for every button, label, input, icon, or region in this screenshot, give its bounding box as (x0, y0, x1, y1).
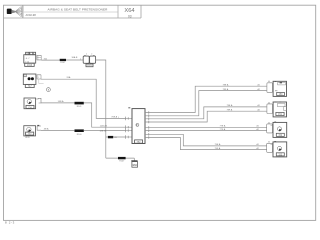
connector bracket of 153 (267, 142, 273, 153)
label plate 153 (276, 153, 284, 157)
splice R107 (60, 59, 66, 64)
svg-text:77E A: 77E A (220, 125, 226, 128)
label plate 756 (26, 105, 34, 109)
svg-text:R140: R140 (77, 134, 83, 136)
svg-text:R147: R147 (119, 161, 125, 163)
splice R147 (118, 157, 126, 163)
connector bracket of 756 (36, 98, 41, 103)
svg-text:76E A: 76E A (111, 115, 117, 118)
svg-text:75E A: 75E A (215, 143, 221, 146)
svg-text:A2: A2 (257, 128, 259, 131)
svg-text:4B A: 4B A (44, 128, 49, 131)
wire 225 to splice R107 (41, 57, 59, 60)
svg-text:A2: A2 (258, 108, 260, 111)
svg-text:2: 2 (91, 54, 92, 56)
component 756 pretensioner buckle (24, 98, 36, 109)
label plate 150 (277, 92, 285, 96)
svg-text:1: 1 (80, 59, 81, 61)
connector bracket of 757 (37, 125, 41, 130)
svg-text:3 A: 3 A (44, 57, 48, 60)
svg-text:A1: A1 (257, 125, 259, 128)
label plate 752 (135, 140, 143, 144)
svg-text:1: 1 (38, 59, 39, 61)
svg-text:77F A: 77F A (220, 128, 226, 131)
wire ECU to 150 pin 1 (145, 83, 267, 112)
svg-text:A1: A1 (258, 83, 260, 86)
svg-text:20A: 20A (67, 76, 71, 79)
component 225 diagnostic socket (24, 52, 36, 63)
splice R110 (108, 136, 118, 139)
splice R140 (75, 129, 84, 136)
connector bracket of 747 (37, 75, 44, 84)
label plate 757 (25, 132, 34, 139)
wire ECU to 150 pin 2 (145, 88, 267, 116)
sheet number 03 (128, 14, 132, 18)
wire ECU to 153 pin 2 (145, 138, 267, 150)
wire R107 to R125 (66, 56, 83, 60)
svg-text:- 6 -7: - 6 -7 (25, 58, 31, 60)
component 150 pretensioner (273, 81, 286, 96)
ground wire to MH (106, 157, 135, 159)
svg-text:1: 1 (86, 54, 87, 56)
wire R125 down to ECU pin 4 / ground node (96, 60, 106, 158)
svg-text:4120: 4120 (25, 137, 30, 139)
svg-text:X64: X64 (124, 8, 135, 14)
header title text (48, 7, 109, 11)
wire ECU to 151 pin 2 (145, 108, 267, 122)
svg-text:14B A: 14B A (58, 100, 64, 103)
svg-text:1: 1 (38, 77, 39, 79)
sheet footer page number (5, 221, 15, 225)
wire junction to ECU pin 4 (106, 136, 126, 138)
wire ECU to 151 pin 1 (145, 104, 267, 119)
wire ECU to 153 pin 1 (145, 134, 267, 146)
svg-text:79F A: 79F A (227, 108, 233, 111)
svg-text:40: 40 (268, 122, 270, 124)
airbag ECU 752 (128, 107, 145, 143)
shunt R125 (80, 54, 96, 64)
svg-text:A1: A1 (257, 143, 259, 146)
svg-text:A2: A2 (257, 147, 259, 150)
wire 747 to ECU pin 1 (41, 76, 126, 119)
connector bracket of 151 (267, 102, 273, 113)
header title block (4, 5, 142, 18)
svg-text:AV02-98: AV02-98 (26, 13, 37, 17)
svg-text:12B 2B: 12B 2B (100, 131, 107, 133)
svg-text:30A B: 30A B (72, 56, 78, 59)
connector bracket of 150 (267, 81, 273, 92)
splice R141 (75, 102, 84, 108)
svg-text:40: 40 (268, 102, 270, 104)
svg-text:12B 2B: 12B 2B (100, 126, 108, 128)
svg-text:A2: A2 (258, 88, 260, 91)
connector bracket of 225 (37, 55, 41, 60)
svg-text:MH: MH (133, 163, 137, 167)
wire 757 to splice R140 (41, 128, 74, 131)
connector bracket of 152 (267, 122, 273, 133)
sheet code X64 (124, 8, 135, 14)
label plate 152 (276, 133, 284, 137)
component 757 pretensioner buckle (24, 126, 36, 136)
svg-text:1016: 1016 (27, 64, 33, 67)
svg-text:78E A: 78E A (223, 83, 229, 86)
component 747 impact sensor (23, 74, 36, 85)
wire R140 to ECU pin 3 (84, 131, 126, 133)
ECU connector brackets left (126, 117, 132, 139)
svg-text:78F A: 78F A (223, 88, 229, 91)
wire 756 to splice R141 (41, 100, 74, 103)
harness connector icon (7, 7, 22, 17)
component 153 side airbag (273, 141, 287, 157)
wire ECU to 152 pin 2 (145, 128, 267, 131)
svg-text:R141: R141 (77, 106, 83, 108)
svg-text:75F A: 75F A (215, 147, 221, 150)
svg-text:AIRBAG & SEAT BELT PRETENSIONE: AIRBAG & SEAT BELT PRETENSIONER (48, 7, 109, 11)
label plate 151 (276, 112, 284, 116)
component 152 side airbag (273, 122, 287, 138)
label plate R125 (86, 64, 93, 67)
label plate 225 (25, 63, 35, 67)
svg-text:79E A: 79E A (227, 104, 233, 107)
wire R141 to ECU pin 2 (84, 103, 126, 128)
ground MH (131, 158, 137, 167)
ECU right connector pin ticks (148, 111, 150, 139)
svg-text:40: 40 (268, 142, 270, 144)
svg-text:1: 1 (118, 117, 119, 119)
svg-text:A1: A1 (258, 104, 260, 107)
svg-text:R107: R107 (60, 62, 66, 64)
label plate 747 (25, 84, 34, 88)
header subtitle date (26, 13, 37, 17)
wire ECU to 152 pin 1 (145, 125, 267, 128)
node a marker (47, 88, 51, 92)
svg-text:40: 40 (268, 81, 270, 83)
component 151 pretensioner (273, 102, 286, 117)
svg-text:8 2-3: 8 2-3 (5, 221, 15, 225)
svg-text:03: 03 (128, 14, 132, 18)
